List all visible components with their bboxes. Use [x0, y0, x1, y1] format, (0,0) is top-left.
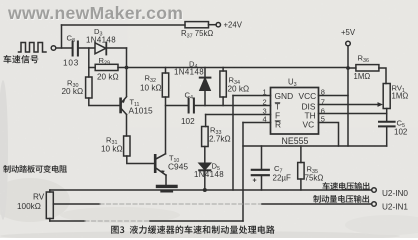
wire R30 to T11 base — [89, 98, 121, 106]
transistor T10 C945 — [154, 155, 157, 171]
resistor R35 — [298, 163, 304, 180]
resistor R29 — [89, 67, 95, 69]
node B junction dot — [125, 66, 129, 70]
+5V junction dot — [346, 66, 350, 70]
wire under-chip rail (pin4/+5V to C5) — [243, 145, 387, 147]
wire C4 to 555 pin2 — [195, 105, 271, 107]
terminal U2-IN0 — [372, 188, 377, 193]
diode D4 — [200, 77, 211, 79]
wire R37 to +24V terminal — [209, 24, 217, 26]
wire pin4 riser down — [242, 123, 244, 222]
resistor R36 — [348, 67, 356, 69]
wire pin1 ground drop — [232, 96, 234, 191]
ground symbol — [158, 185, 177, 188]
wire input node — [56, 47, 72, 49]
wire pin3 output — [206, 114, 271, 116]
speed output rail — [50, 189, 372, 191]
wire pin4 reset — [243, 122, 271, 124]
resistor R37 — [185, 22, 209, 28]
wire pin1 GND — [233, 95, 271, 97]
transistor T11 A1015 — [119, 99, 122, 112]
RV bottom return wire — [50, 220, 85, 222]
wire R33 to D5 — [204, 147, 206, 164]
wire C8 to D3 — [79, 47, 95, 49]
label 制动踏板可变电阻 (brake pedal variable resistor) — [3, 165, 67, 173]
wire node B down to T11 emitter — [126, 48, 128, 96]
wire top rail to R37 — [62, 24, 186, 26]
resistor R33 — [202, 127, 209, 147]
capacitor C4 — [189, 99, 194, 113]
diode D5 — [199, 163, 210, 169]
terminal +24V — [216, 23, 220, 27]
wire C7 top lead — [261, 146, 263, 169]
resistor R30 — [86, 77, 92, 98]
speed signal square-wave icon — [19, 43, 47, 53]
wire pin8 VCC — [319, 95, 349, 97]
wire +5V drop — [347, 46, 349, 146]
wire node B to +5V node (bias rail) — [127, 67, 349, 69]
caption 图3 液力缓速器的车速和制动量处理电路 — [111, 225, 275, 233]
wire RV1 bottom / pin6 — [386, 109, 388, 122]
wire pin7 to RV1 wiper — [319, 104, 379, 106]
wire pin5 — [319, 123, 339, 147]
capacitor C5 — [379, 122, 395, 127]
terminal U2-IN1 — [372, 202, 377, 207]
wire pin3 to R33 — [205, 115, 207, 127]
wire R32 top to bias rail — [165, 68, 167, 74]
potentiometer RV (brake pedal) — [46, 192, 53, 219]
terminal +5V — [346, 41, 351, 46]
capacitor C8 — [73, 42, 78, 56]
resistor R32 — [162, 73, 168, 97]
D5 junction dot on output rail — [203, 188, 207, 192]
555 timer U3 chip body — [271, 88, 319, 135]
diode D3 — [95, 43, 106, 54]
wire node A down (C8/D3 junction to R30) — [88, 48, 90, 77]
resistor R34 — [220, 71, 226, 97]
brake output rail — [53, 203, 100, 205]
label 车速电压输出 (speed voltage output) — [322, 182, 369, 190]
wire T11 collector to R31 — [126, 115, 128, 137]
wire R32 bottom / C4 node / T10 collector — [165, 97, 167, 154]
potentiometer RV1 — [383, 84, 390, 109]
input terminal — [51, 46, 56, 51]
label 制动量电压输出 (brake amount voltage output) — [313, 195, 369, 203]
capacitor C7 — [252, 170, 269, 175]
label 车速信号 (speed signal) — [4, 55, 39, 63]
resistor R31 — [124, 136, 130, 156]
wire R31 to T10 base — [127, 156, 155, 164]
wire riser to +24V rail — [61, 25, 63, 48]
wire T10 emitter to ground — [165, 175, 167, 185]
wire D3 to node B — [106, 47, 126, 49]
wire C4 node — [166, 105, 189, 107]
